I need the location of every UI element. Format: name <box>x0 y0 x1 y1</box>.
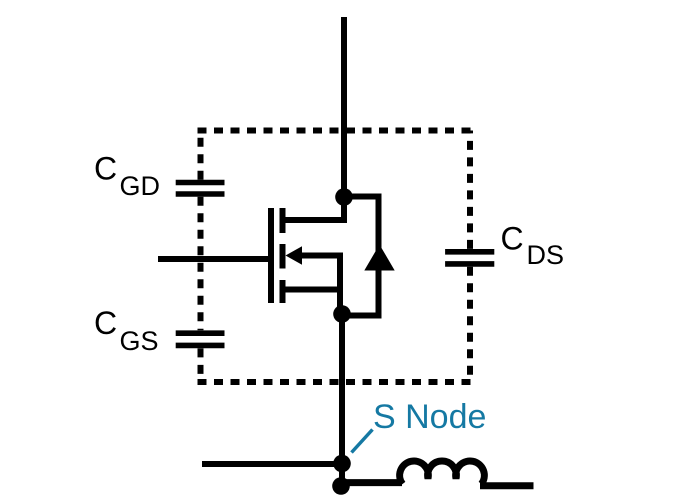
svg-text:C: C <box>94 305 117 341</box>
wire bottom left <box>202 461 342 467</box>
transistor Q1 body arrow <box>286 246 303 264</box>
capacitor CGD top plate <box>176 180 225 186</box>
dashed box left edge upper segment <box>198 131 204 180</box>
svg-text:GS: GS <box>120 326 159 356</box>
dashed box left edge lower segment <box>198 348 204 382</box>
inductor L1 coil <box>400 461 485 484</box>
capacitor CDS bottom plate <box>445 261 494 267</box>
node lower junction dot <box>332 477 350 495</box>
transistor Q1 channel middle segment <box>280 244 286 269</box>
node source junction dot <box>333 305 351 323</box>
dashed box left edge middle segment <box>198 197 204 330</box>
wire source vertical to S node <box>339 311 345 487</box>
svg-text:S Node: S Node <box>373 398 486 436</box>
dashed box right edge upper segment <box>467 131 473 249</box>
capacitor CGS top plate <box>176 330 225 336</box>
wire body connection <box>300 256 340 313</box>
S Node leader line <box>352 430 373 453</box>
body diode D1 triangle <box>364 245 394 271</box>
node drain junction dot <box>335 188 353 206</box>
inductor L1 right lead <box>480 482 534 489</box>
transistor Q1 gate bar <box>268 208 274 303</box>
transistor Q1 channel bottom segment <box>280 280 286 303</box>
capacitor CDS top plate <box>445 249 494 255</box>
wire source connection <box>283 287 343 293</box>
wire drain vertical from top <box>283 17 345 220</box>
node S junction dot <box>333 455 351 473</box>
dashed box bottom edge <box>198 379 473 385</box>
transistor Q1 channel top segment <box>280 208 286 233</box>
capacitor CGD bottom plate <box>176 191 225 197</box>
svg-text:C: C <box>501 221 524 257</box>
inductor L1 left lead <box>346 479 402 486</box>
body diode D1 branch wire <box>342 197 379 316</box>
dashed box right edge lower segment <box>467 267 473 382</box>
svg-text:DS: DS <box>527 240 565 270</box>
capacitor CGS bottom plate <box>176 343 225 349</box>
dashed box top edge <box>198 128 473 134</box>
svg-text:GD: GD <box>120 171 161 201</box>
wire gate lead <box>158 256 268 262</box>
svg-text:C: C <box>94 151 117 187</box>
